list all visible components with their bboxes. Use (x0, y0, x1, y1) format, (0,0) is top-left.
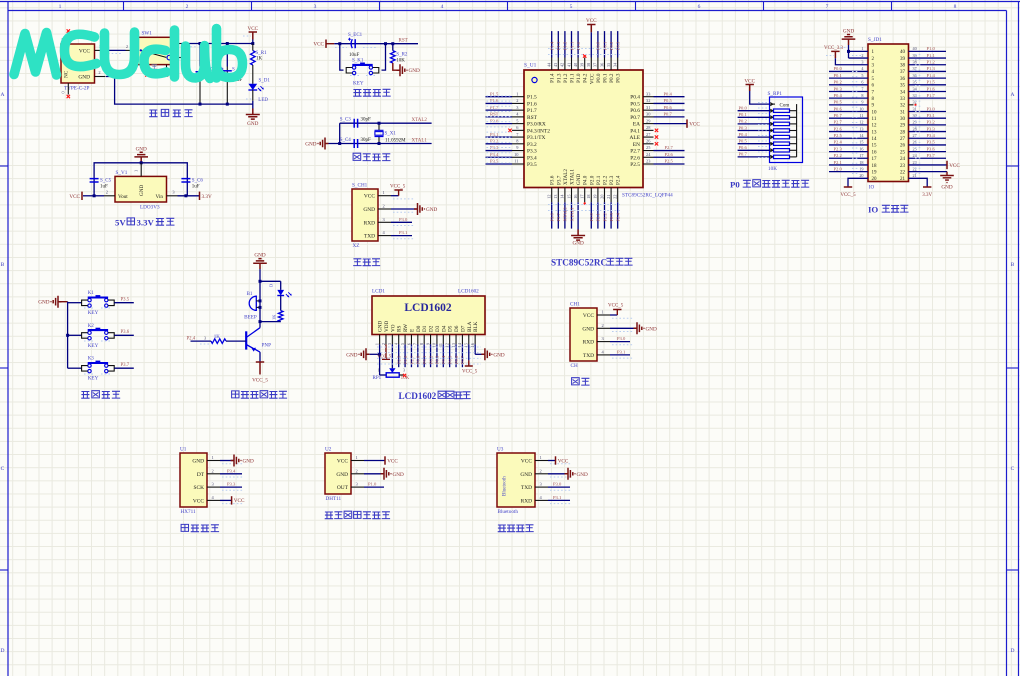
svg-text:38: 38 (586, 63, 591, 67)
svg-text:RXD: RXD (521, 498, 532, 504)
svg-text:K2: K2 (88, 324, 95, 329)
svg-text:2: 2 (540, 468, 542, 473)
svg-text:STC89C52RC_LQFP44: STC89C52RC_LQFP44 (622, 193, 673, 199)
svg-text:P2.0: P2.0 (589, 212, 594, 221)
svg-text:U3: U3 (497, 447, 504, 453)
connector J1 pin2 stub (95, 76, 106, 78)
svg-text:RW: RW (403, 324, 409, 332)
svg-text:P0.3: P0.3 (616, 73, 622, 83)
wire LED branch vertical (280, 281, 282, 290)
potentiometer RP1 LCD (380, 374, 387, 376)
svg-text:P0.6: P0.6 (454, 355, 459, 364)
svg-text:P0: P0 (730, 180, 740, 190)
svg-text:D7: D7 (460, 325, 466, 332)
junction C2 bottom (226, 103, 229, 106)
svg-text:LCD1602: LCD1602 (458, 289, 479, 295)
svg-text:TXD: TXD (521, 485, 532, 491)
connector J1 top stub pin (67, 33, 69, 45)
svg-text:P2.6: P2.6 (665, 152, 674, 157)
svg-text:P2.7: P2.7 (834, 120, 843, 125)
svg-text:25: 25 (900, 150, 906, 155)
junction Vin C6 (184, 194, 187, 197)
svg-text:20: 20 (859, 173, 863, 178)
svg-text:P0.3: P0.3 (435, 355, 440, 364)
RP1 resistor P0.6 (738, 149, 770, 151)
svg-text:S_C3: S_C3 (340, 118, 352, 123)
svg-text:LED: LED (258, 98, 268, 103)
svg-text:2: 2 (106, 189, 108, 194)
no-connect X SW1 bottom pins (145, 73, 148, 76)
svg-text:11: 11 (514, 159, 518, 164)
svg-text:P2.4: P2.4 (616, 212, 621, 221)
IC U1 bottom pin 22 P2.4 (617, 188, 619, 203)
svg-text:13: 13 (872, 130, 878, 135)
svg-text:P3.5: P3.5 (927, 140, 936, 145)
svg-text:P0.7: P0.7 (834, 113, 843, 118)
LCD1602 pin 3 VO (391, 335, 393, 345)
svg-text:7: 7 (826, 4, 829, 10)
IC U1 bottom pin 20 P2.2 (604, 188, 606, 203)
junction R2 top (391, 42, 394, 45)
svg-text:P0.0: P0.0 (834, 66, 843, 71)
svg-text:C: C (1, 466, 5, 472)
svg-text:BEEP: BEEP (244, 314, 257, 320)
svg-text:31: 31 (913, 106, 917, 111)
svg-text:VCC_3.3: VCC_3.3 (824, 46, 844, 51)
svg-text:VCC_5: VCC_5 (608, 304, 624, 309)
junction VCC rail (251, 42, 254, 45)
svg-text:P3.0: P3.0 (617, 336, 626, 341)
LCD1602 pin 14 D7 (461, 335, 463, 345)
svg-text:42: 42 (560, 63, 565, 67)
svg-text:6: 6 (698, 4, 701, 10)
svg-text:32: 32 (900, 104, 906, 109)
svg-text:19: 19 (872, 170, 878, 175)
svg-text:P1.0: P1.0 (927, 46, 936, 51)
svg-text:P0.2: P0.2 (739, 119, 748, 124)
svg-text:VCC: VCC (949, 163, 960, 169)
svg-text:P2.4: P2.4 (834, 140, 843, 145)
capacitor S_C4 30pF (354, 139, 357, 148)
svg-text:21: 21 (606, 195, 611, 199)
svg-text:7: 7 (413, 343, 418, 345)
svg-text:10uF: 10uF (349, 53, 360, 58)
svg-text:39: 39 (580, 63, 585, 67)
svg-text:D0: D0 (416, 325, 422, 332)
ground GND LCD left (361, 348, 369, 360)
svg-text:P3.5: P3.5 (121, 298, 130, 303)
title DHT11 module (325, 512, 333, 519)
IC U1 bottom pin 12 P3.6 (551, 188, 553, 203)
svg-text:VCC_5: VCC_5 (840, 193, 856, 198)
svg-text:OUT: OUT (337, 485, 349, 491)
no-connect X top of J1 (67, 29, 70, 32)
title weighing module (181, 524, 188, 531)
svg-text:GND: GND (192, 459, 204, 465)
svg-text:RXD: RXD (364, 220, 375, 226)
svg-text:U2: U2 (325, 447, 332, 453)
svg-text:P2.2: P2.2 (602, 212, 607, 221)
svg-text:16: 16 (573, 195, 578, 199)
svg-text:P1.6: P1.6 (527, 101, 537, 107)
svg-text:1: 1 (374, 343, 379, 345)
regulator pin3 stub (167, 195, 178, 197)
regulator pin2 stub (104, 195, 115, 197)
IC U1 bottom pin 19 P2.1 (597, 188, 599, 203)
svg-text:P2.6: P2.6 (403, 355, 408, 364)
svg-text:P3.7: P3.7 (927, 153, 936, 158)
dash marks JD1 right (915, 54, 922, 56)
svg-text:RP1: RP1 (373, 376, 382, 381)
svg-text:40: 40 (573, 63, 578, 67)
svg-text:GND: GND (941, 185, 952, 191)
IC U1 left pin 11 P3.5 (512, 163, 524, 165)
svg-text:P0.2: P0.2 (834, 80, 843, 85)
svg-text:P0.4: P0.4 (630, 95, 640, 101)
wire J1 VCC to SW1 (106, 49, 126, 51)
ground GND regulator top (134, 152, 148, 163)
DHT11 module U2 body (325, 453, 351, 494)
svg-text:P0.6: P0.6 (630, 108, 640, 114)
svg-text:TXD: TXD (364, 234, 375, 240)
svg-text:P3.3: P3.3 (227, 482, 236, 487)
junction crystal bottom (378, 142, 381, 145)
junction crystal left bottom (338, 142, 341, 145)
wire alarm top node (259, 269, 261, 281)
wire buzzer to bottom node (259, 301, 261, 308)
svg-text:P3.7: P3.7 (556, 212, 561, 221)
svg-text:14: 14 (872, 137, 878, 142)
svg-text:2: 2 (186, 4, 189, 10)
svg-text:P1.6: P1.6 (927, 86, 936, 91)
svg-text:37: 37 (593, 63, 598, 67)
svg-text:VCC: VCC (583, 313, 594, 319)
svg-text:K1: K1 (88, 291, 95, 296)
svg-text:P2.7: P2.7 (630, 149, 640, 155)
IC U1 left pin 5 P3.0/RX (512, 123, 524, 125)
IC U1 bottom pin 15 XTAL1 (571, 188, 573, 203)
power port VCC_3.3 JD1 (831, 51, 839, 58)
wire reset main (334, 43, 418, 45)
download port S_CH1 body (352, 189, 378, 241)
LCD1602 pin 6 E (410, 335, 412, 345)
wire R1 to LED D1 (252, 65, 254, 84)
svg-text:D: D (1, 648, 5, 654)
svg-text:VCC: VCC (79, 48, 90, 54)
svg-text:P2.0: P2.0 (589, 175, 595, 185)
push button K2 (68, 334, 82, 336)
svg-text:10K: 10K (396, 59, 405, 64)
junction crystal top (378, 122, 381, 125)
LCD1602 pin 13 D6 (455, 335, 457, 345)
RP1 resistor P0.5 (738, 143, 770, 145)
svg-text:NC: NC (64, 70, 70, 78)
svg-text:P0.1: P0.1 (422, 355, 427, 364)
svg-text:P0.5: P0.5 (447, 355, 452, 364)
svg-text:KEY: KEY (353, 81, 364, 87)
svg-text:P0.2: P0.2 (609, 73, 615, 83)
wire SW1 output rail (181, 43, 253, 45)
svg-text:S_R2: S_R2 (396, 53, 408, 58)
svg-text:P0.0: P0.0 (416, 355, 421, 364)
svg-text:P3.5: P3.5 (527, 162, 537, 168)
svg-text:1: 1 (383, 190, 385, 195)
svg-text:17: 17 (872, 157, 878, 162)
svg-text:P2.3: P2.3 (609, 175, 615, 185)
svg-text:P1.6: P1.6 (490, 98, 499, 103)
svg-text:30pF: 30pF (361, 118, 372, 123)
svg-text:P3.4: P3.4 (527, 155, 537, 161)
svg-text:5V: 5V (115, 218, 126, 228)
svg-text:D5: D5 (448, 325, 454, 332)
svg-text:12: 12 (547, 195, 552, 199)
svg-text:GND: GND (78, 75, 90, 81)
svg-text:PNP: PNP (262, 343, 272, 349)
svg-text:Vin: Vin (156, 194, 164, 200)
svg-text:B: B (1011, 262, 1015, 268)
IC U1 right pin 23 P2.5 (643, 163, 654, 165)
IC U1 top pin 39 P4.2 (584, 58, 586, 71)
svg-text:3.3V: 3.3V (922, 193, 932, 198)
IC U1 left pin 1 P1.5 (512, 96, 524, 98)
IC U1 right pin 31 P0.6 (643, 109, 654, 111)
svg-text:12: 12 (872, 124, 878, 129)
svg-text:10K: 10K (768, 166, 777, 172)
svg-text:S_JD1: S_JD1 (868, 37, 882, 43)
svg-text:30: 30 (913, 113, 917, 118)
svg-text:1: 1 (516, 91, 518, 96)
junction alarm bottom (259, 320, 262, 323)
svg-text:P2.1: P2.1 (596, 175, 602, 185)
junction JD1 pin1 (847, 50, 850, 53)
svg-text:3: 3 (387, 343, 392, 345)
svg-text:8: 8 (419, 343, 424, 345)
svg-text:1: 1 (861, 46, 863, 51)
capacitor S_C1 100nF (196, 72, 205, 75)
svg-text:GND: GND (843, 29, 854, 35)
svg-text:P2.5: P2.5 (397, 355, 402, 364)
svg-text:GND: GND (336, 472, 348, 478)
RP1 resistor P0.3 (738, 130, 770, 132)
junction alarm top (259, 280, 262, 283)
svg-text:P3.1/TX: P3.1/TX (527, 135, 546, 141)
svg-text:IO: IO (869, 185, 875, 191)
svg-text:P0.7: P0.7 (739, 152, 748, 157)
sheet frame border (0, 1, 1020, 3)
LCD1602 pin 2 VDD (385, 335, 387, 345)
svg-text:4: 4 (441, 4, 444, 10)
svg-text:40: 40 (913, 46, 917, 51)
svg-text:16: 16 (859, 146, 863, 151)
IC U1 left pin 3 P1.7 (512, 109, 524, 111)
frame column ticks (123, 2, 125, 11)
svg-text:Vout: Vout (118, 194, 128, 200)
resistor network S_RP1 box (770, 97, 803, 163)
svg-text:XTAL1: XTAL1 (570, 169, 576, 185)
svg-text:GND: GND (254, 253, 265, 259)
svg-text:3: 3 (204, 336, 206, 341)
no-connect X right of SW1 (182, 56, 185, 59)
svg-text:17: 17 (580, 195, 585, 199)
dash marks bottom pins (548, 204, 620, 206)
svg-text:39: 39 (900, 57, 906, 62)
ground GND LCD right (481, 348, 489, 360)
svg-text:15: 15 (872, 144, 878, 149)
svg-text:38: 38 (900, 64, 906, 69)
switch SW1 bottom stubs (146, 65, 148, 73)
svg-text:P3.2: P3.2 (927, 120, 936, 125)
svg-text:P3.1: P3.1 (617, 349, 626, 354)
svg-text:VCC: VCC (364, 194, 375, 200)
svg-text:P0.7: P0.7 (460, 355, 465, 364)
dash marks power (108, 53, 122, 55)
svg-text:GND: GND (493, 352, 504, 358)
svg-text:GND: GND (136, 146, 147, 152)
weighing module U1 HX711 body (180, 453, 207, 507)
svg-text:15: 15 (859, 140, 863, 145)
svg-text:D1: D1 (422, 325, 428, 332)
svg-text:22: 22 (900, 170, 906, 175)
svg-text:VCC: VCC (689, 121, 700, 127)
svg-text:Com: Com (780, 104, 790, 109)
junction Vout C5 (93, 194, 96, 197)
svg-text:P0.2: P0.2 (428, 355, 433, 364)
svg-text:37: 37 (900, 70, 906, 75)
junction reset left (338, 42, 341, 45)
svg-text:P3.0: P3.0 (490, 118, 499, 123)
svg-text:31: 31 (900, 110, 906, 115)
svg-text:C: C (1011, 466, 1015, 472)
svg-text:1: 1 (356, 455, 358, 460)
svg-text:P1.3: P1.3 (556, 73, 562, 83)
power port VCC power circuit (249, 32, 257, 40)
svg-text:P1.5: P1.5 (527, 95, 537, 101)
svg-text:P3.0: P3.0 (553, 482, 562, 487)
RP1 resistor P0.2 (738, 123, 770, 125)
capacitor S_EC1 10uF polarized (354, 39, 356, 48)
svg-text:P1.7: P1.7 (927, 93, 936, 98)
svg-text:P3.6: P3.6 (121, 330, 130, 335)
svg-text:D: D (269, 284, 274, 287)
svg-text:SCK: SCK (194, 485, 205, 491)
title alarm circuit (232, 391, 239, 398)
IC U1 right pin 29 EA (643, 123, 654, 125)
svg-text:GND: GND (305, 142, 316, 148)
wire crystal bottom (329, 143, 432, 145)
LCD1602 pin 8 D1 (423, 335, 425, 345)
svg-text:33: 33 (900, 97, 906, 102)
wire emitter to VCC_5 (259, 352, 261, 362)
LCD1602 pin 11 D4 (442, 335, 444, 345)
push button S_K1 (352, 64, 372, 66)
svg-text:3: 3 (403, 368, 405, 373)
svg-text:41: 41 (566, 63, 571, 67)
svg-text:2: 2 (126, 44, 128, 49)
svg-text:30pF: 30pF (361, 138, 372, 143)
svg-text:2: 2 (602, 323, 604, 328)
junction reset right (384, 42, 387, 45)
svg-text:2: 2 (212, 468, 214, 473)
title button circuit (81, 392, 89, 399)
svg-text:P3.1: P3.1 (553, 495, 562, 500)
wire regulator top rail (94, 163, 187, 196)
junction C1 top (199, 42, 202, 45)
svg-text:P0.0: P0.0 (596, 73, 602, 83)
svg-text:S_U1: S_U1 (524, 63, 537, 69)
RP1 resistor P0.7 (738, 156, 770, 158)
svg-text:B: B (1, 262, 5, 268)
svg-text:P3.7: P3.7 (121, 363, 130, 368)
svg-text:P1.1: P1.1 (570, 73, 576, 83)
junction C1 bottom (199, 103, 202, 106)
LCD1602 pin 10 D3 (436, 335, 438, 345)
svg-text:LDO3V3: LDO3V3 (140, 205, 160, 211)
svg-text:P4.3/INT2: P4.3/INT2 (527, 128, 550, 134)
wire Vout to VCC (94, 195, 104, 197)
junction buttons trunk K2 (66, 334, 69, 337)
svg-text:U1: U1 (180, 447, 187, 453)
svg-text:P1.7: P1.7 (527, 108, 537, 114)
capacitor S_C2 10uF (223, 70, 232, 72)
svg-text:KEY: KEY (88, 310, 99, 316)
svg-text:XTAL1: XTAL1 (569, 207, 574, 222)
svg-text:GND: GND (393, 472, 404, 478)
svg-text:D4: D4 (441, 325, 447, 332)
IC U1 top pin 35 P0.2 (610, 58, 612, 71)
svg-text:1: 1 (212, 455, 214, 460)
LCD1602 pin 12 D5 (449, 335, 451, 345)
svg-text:HX711: HX711 (181, 509, 196, 515)
svg-text:ALE: ALE (630, 135, 641, 141)
svg-text:23: 23 (913, 160, 917, 165)
svg-text:24: 24 (900, 157, 906, 162)
svg-text:3: 3 (314, 4, 317, 10)
svg-text:GND: GND (378, 321, 384, 332)
svg-text:2: 2 (381, 343, 386, 345)
svg-text:P1.7: P1.7 (490, 105, 499, 110)
capacitor S_C3 30pF (354, 119, 357, 128)
svg-text:P3.1: P3.1 (399, 230, 408, 235)
RP1 resistor P0.1 (738, 116, 770, 118)
svg-text:VO: VO (390, 324, 396, 332)
svg-text:1: 1 (378, 368, 380, 373)
svg-text:22: 22 (613, 195, 618, 199)
wire VCC rail down to R1 (252, 44, 254, 51)
wire J1 GND elbow to bottom rail (106, 77, 253, 105)
IC U1 bottom pin 21 P2.3 (610, 188, 612, 203)
svg-text:S_C4: S_C4 (340, 138, 352, 143)
wire alarm bottom node (260, 321, 281, 323)
svg-text:VCC_5: VCC_5 (462, 370, 478, 375)
svg-text:GND: GND (247, 121, 258, 127)
svg-text:XTAL2: XTAL2 (563, 207, 568, 222)
svg-text:18: 18 (859, 160, 863, 165)
svg-text:RST: RST (527, 115, 538, 121)
wire cap C2 branch (226, 44, 228, 67)
LCD1602 pin 4 RS (398, 335, 400, 345)
dash marks U1 left pins (487, 95, 511, 97)
svg-text:7: 7 (861, 86, 863, 91)
svg-text:GND: GND (409, 68, 420, 74)
svg-text:VCC: VCC (69, 194, 80, 200)
RP1 resistor P0.4 (738, 136, 770, 138)
svg-text:6: 6 (406, 343, 411, 345)
svg-text:RST: RST (399, 39, 408, 44)
IC U1 top pin 38 VCC (590, 58, 592, 71)
svg-text:GND: GND (243, 459, 254, 465)
svg-text:VCC: VCC (387, 458, 398, 464)
svg-text:P2.5: P2.5 (834, 133, 843, 138)
